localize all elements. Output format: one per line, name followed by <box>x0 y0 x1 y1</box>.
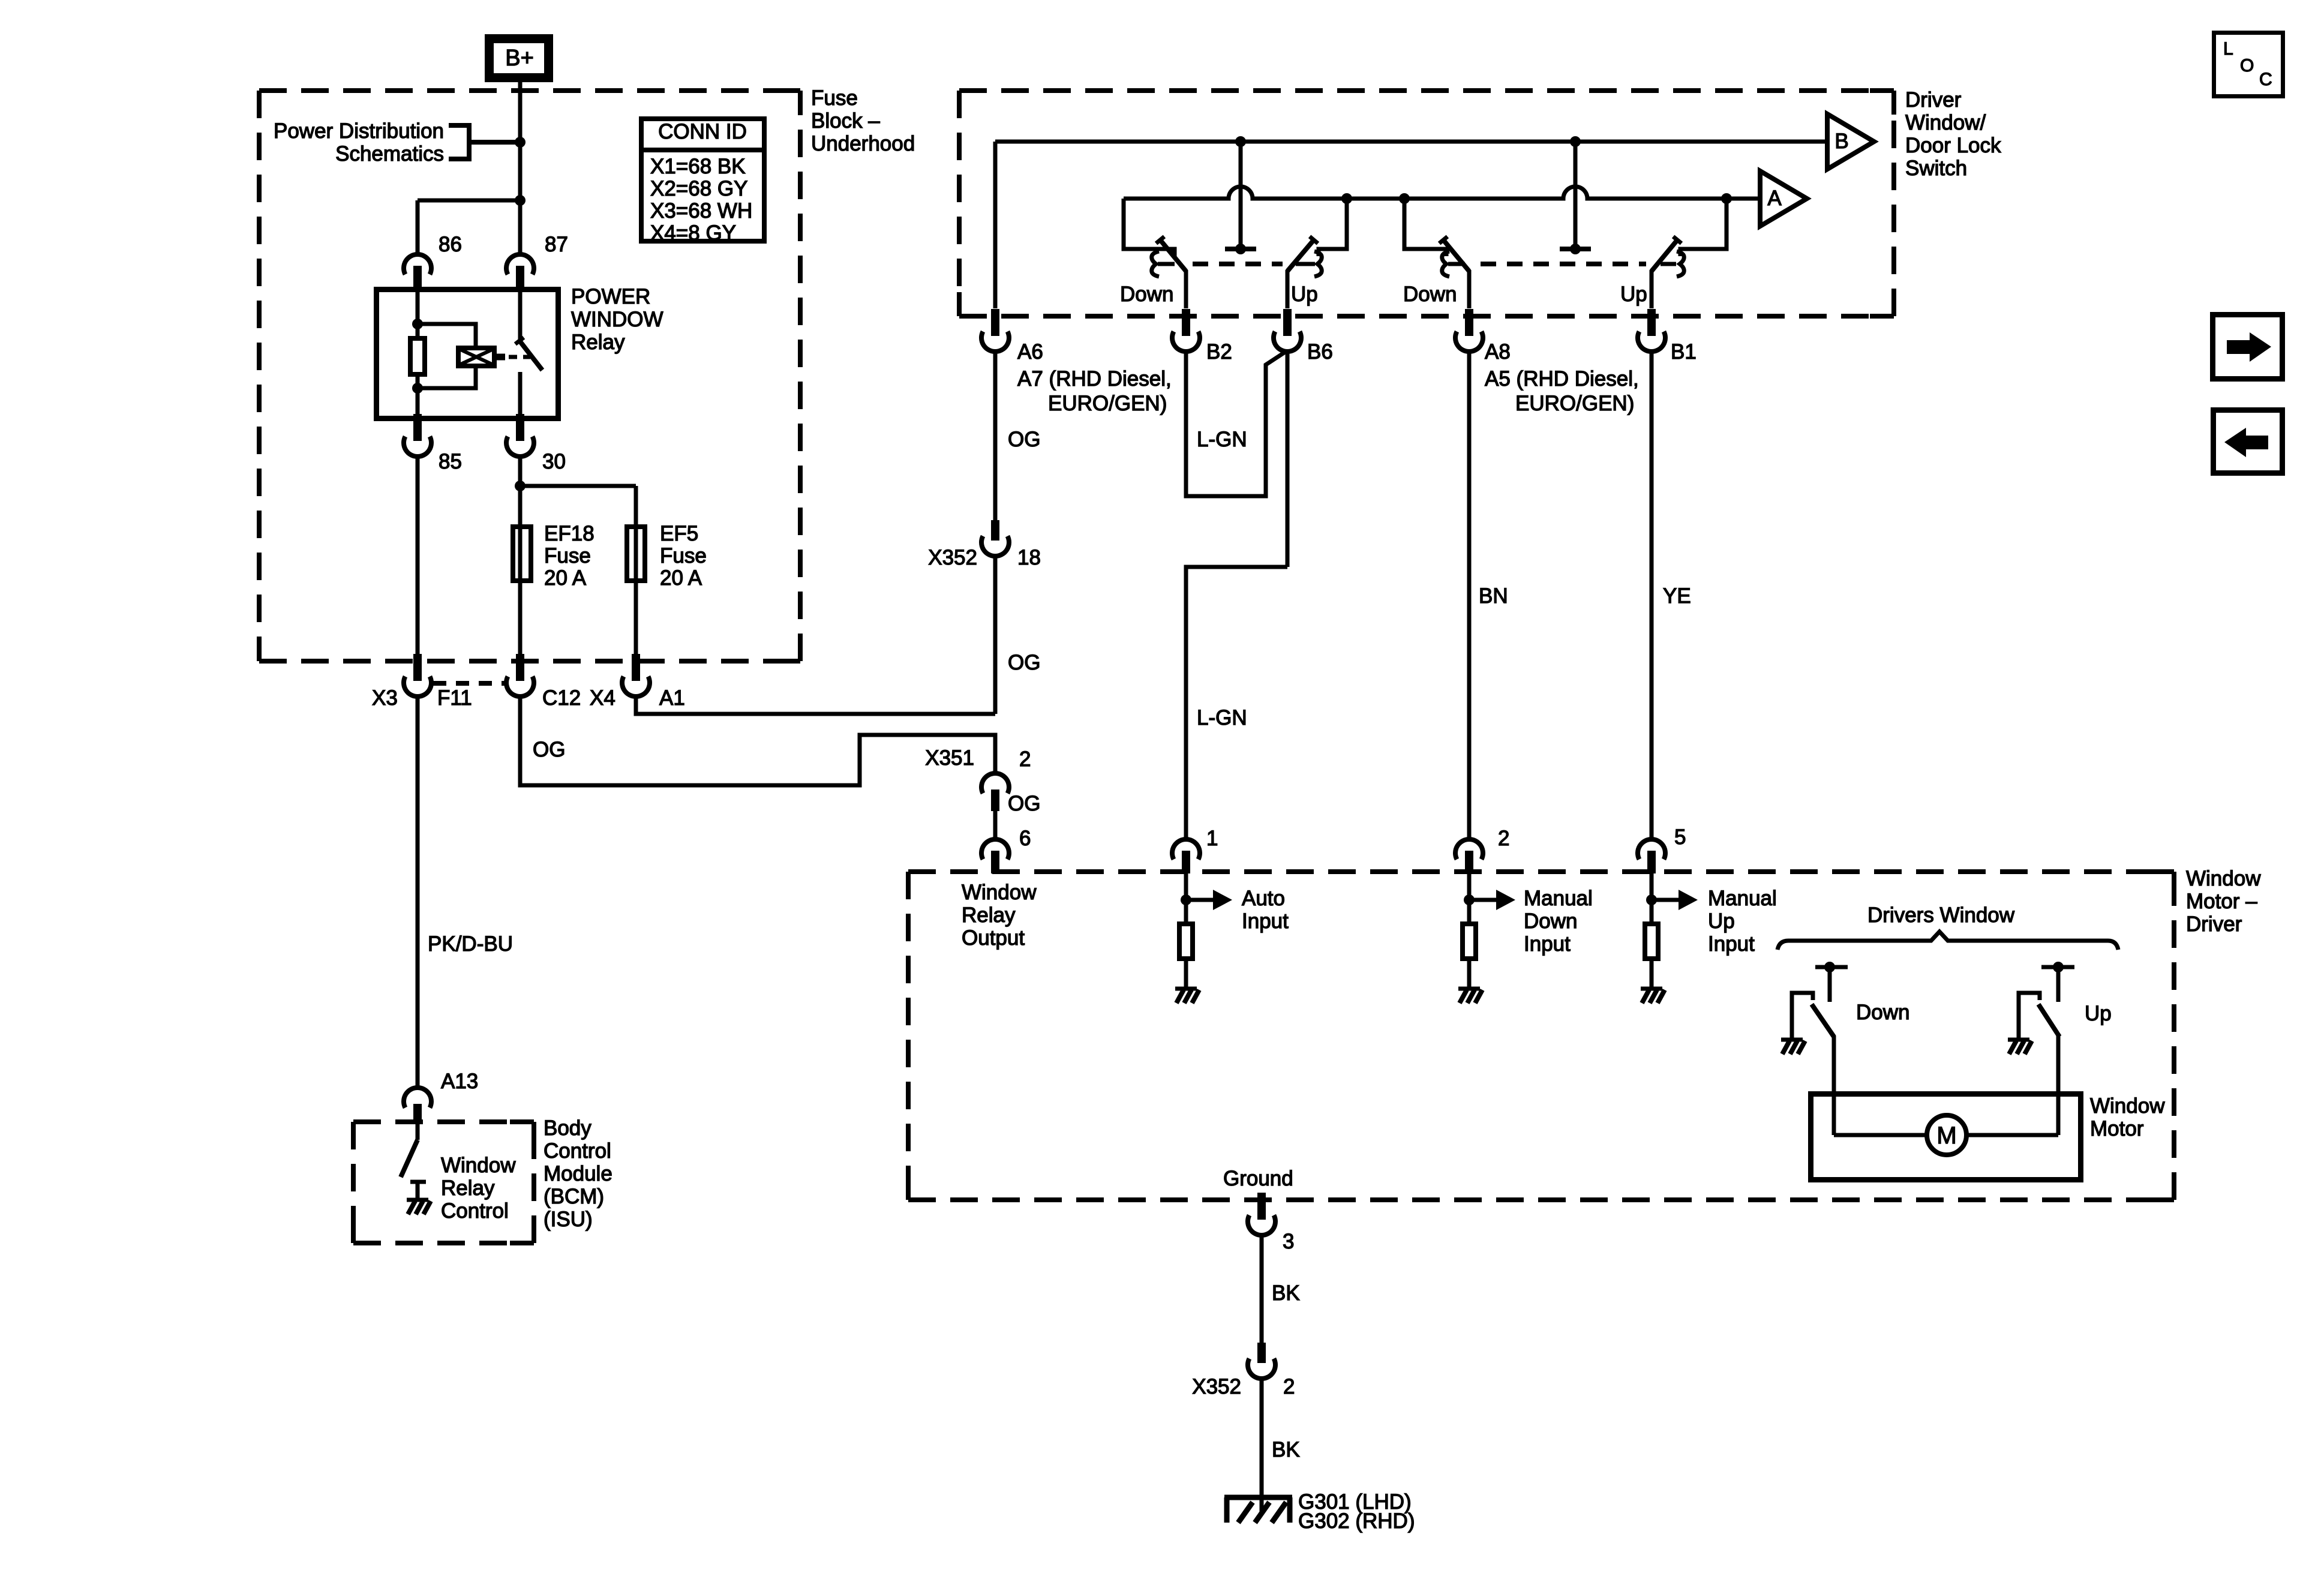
svg-text:(ISU): (ISU) <box>544 1208 593 1231</box>
svg-text:1: 1 <box>1206 827 1218 850</box>
svg-text:X3=68 WH: X3=68 WH <box>650 199 752 223</box>
svg-text:Ground: Ground <box>1223 1167 1293 1190</box>
svg-text:Output: Output <box>962 926 1025 950</box>
svg-text:Manual: Manual <box>1524 887 1593 910</box>
svg-text:Window: Window <box>2186 867 2261 890</box>
svg-text:Up: Up <box>1708 909 1735 933</box>
svg-text:Module: Module <box>544 1162 612 1185</box>
svg-text:2: 2 <box>1019 748 1031 771</box>
svg-text:Relay: Relay <box>441 1176 495 1200</box>
svg-text:X351: X351 <box>925 746 974 770</box>
svg-text:Drivers Window: Drivers Window <box>1867 903 2015 927</box>
svg-text:X352: X352 <box>928 546 977 569</box>
svg-text:86: 86 <box>439 233 462 256</box>
svg-text:Window/: Window/ <box>1905 111 1986 134</box>
svg-text:Fuse: Fuse <box>544 544 591 568</box>
svg-text:Driver: Driver <box>1905 88 1962 112</box>
svg-text:OG: OG <box>533 738 565 761</box>
svg-text:Input: Input <box>1708 932 1755 956</box>
svg-text:Window: Window <box>441 1154 516 1177</box>
svg-text:PK/D-BU: PK/D-BU <box>428 932 513 956</box>
svg-text:A7 (RHD Diesel,: A7 (RHD Diesel, <box>1017 367 1172 391</box>
svg-text:X352: X352 <box>1192 1375 1241 1398</box>
svg-text:Up: Up <box>1291 283 1318 306</box>
svg-text:3: 3 <box>1283 1230 1294 1253</box>
svg-text:A: A <box>1767 187 1782 210</box>
svg-text:Relay: Relay <box>962 903 1016 927</box>
svg-text:BK: BK <box>1272 1281 1300 1305</box>
svg-text:Auto: Auto <box>1242 887 1285 910</box>
svg-text:OG: OG <box>1008 651 1040 674</box>
svg-text:2: 2 <box>1498 827 1509 850</box>
svg-text:Body: Body <box>544 1116 591 1140</box>
svg-text:C: C <box>2259 70 2272 89</box>
svg-text:Driver: Driver <box>2186 912 2242 936</box>
svg-text:L-GN: L-GN <box>1197 706 1247 730</box>
svg-text:Manual: Manual <box>1708 887 1777 910</box>
svg-text:YE: YE <box>1663 584 1691 608</box>
svg-text:(BCM): (BCM) <box>544 1185 604 1208</box>
svg-text:Fuse: Fuse <box>660 544 707 568</box>
svg-text:Window: Window <box>962 881 1037 904</box>
svg-text:O: O <box>2240 56 2254 76</box>
svg-text:X1=68 BK: X1=68 BK <box>650 155 746 178</box>
svg-text:Schematics: Schematics <box>335 142 444 166</box>
svg-text:EURO/GEN): EURO/GEN) <box>1048 392 1167 415</box>
svg-text:Up: Up <box>2085 1002 2112 1025</box>
svg-text:20 A: 20 A <box>660 566 702 590</box>
svg-text:Switch: Switch <box>1905 157 1967 180</box>
svg-text:A8: A8 <box>1485 340 1511 364</box>
svg-text:B2: B2 <box>1206 340 1232 364</box>
svg-text:Down: Down <box>1403 283 1457 306</box>
svg-text:Down: Down <box>1524 909 1577 933</box>
svg-text:20 A: 20 A <box>544 566 587 590</box>
svg-text:87: 87 <box>545 233 568 256</box>
svg-text:X2=68 GY: X2=68 GY <box>650 177 747 200</box>
svg-text:30: 30 <box>542 450 566 473</box>
svg-text:Input: Input <box>1524 932 1571 956</box>
svg-text:Motor: Motor <box>2090 1117 2144 1140</box>
svg-text:85: 85 <box>439 450 462 473</box>
svg-text:BN: BN <box>1479 584 1508 608</box>
svg-text:X4: X4 <box>590 686 615 710</box>
svg-text:6: 6 <box>1019 827 1031 850</box>
svg-text:Door Lock: Door Lock <box>1905 134 2001 157</box>
svg-text:A1: A1 <box>659 686 685 710</box>
svg-text:OG: OG <box>1008 428 1040 451</box>
svg-text:B: B <box>1834 130 1848 153</box>
svg-text:Control: Control <box>544 1139 611 1163</box>
svg-text:5: 5 <box>1674 825 1686 849</box>
svg-text:B1: B1 <box>1671 340 1697 364</box>
svg-text:Block –: Block – <box>811 109 880 133</box>
svg-text:Down: Down <box>1856 1001 1909 1024</box>
svg-text:Relay: Relay <box>571 331 625 354</box>
svg-text:F11: F11 <box>437 686 472 710</box>
svg-text:B6: B6 <box>1307 340 1333 364</box>
svg-text:POWER: POWER <box>571 285 650 308</box>
svg-text:EF5: EF5 <box>660 522 698 545</box>
svg-text:X4=8 GY: X4=8 GY <box>650 221 736 245</box>
svg-text:A5 (RHD Diesel,: A5 (RHD Diesel, <box>1485 367 1639 391</box>
svg-text:Power Distribution: Power Distribution <box>274 119 444 143</box>
svg-text:EF18: EF18 <box>544 522 594 545</box>
svg-text:EURO/GEN): EURO/GEN) <box>1515 392 1634 415</box>
svg-text:OG: OG <box>1008 792 1040 815</box>
svg-text:Window: Window <box>2090 1094 2165 1118</box>
svg-text:X3: X3 <box>372 686 398 710</box>
svg-text:A13: A13 <box>441 1070 478 1093</box>
svg-text:WINDOW: WINDOW <box>571 308 663 331</box>
svg-text:B+: B+ <box>505 46 534 71</box>
svg-text:18: 18 <box>1017 546 1041 569</box>
svg-text:Control: Control <box>441 1199 509 1223</box>
svg-text:L-GN: L-GN <box>1197 428 1247 451</box>
svg-text:CONN ID: CONN ID <box>658 120 747 143</box>
svg-text:BK: BK <box>1272 1438 1300 1461</box>
svg-text:G302 (RHD): G302 (RHD) <box>1298 1509 1415 1533</box>
svg-text:Underhood: Underhood <box>811 132 915 155</box>
svg-text:A6: A6 <box>1017 340 1043 364</box>
svg-text:Input: Input <box>1242 909 1289 933</box>
svg-text:M: M <box>1936 1122 1956 1149</box>
svg-text:L: L <box>2223 39 2233 59</box>
svg-text:Down: Down <box>1120 283 1173 306</box>
svg-text:Motor –: Motor – <box>2186 890 2257 913</box>
svg-text:C12: C12 <box>542 686 581 710</box>
svg-text:Fuse: Fuse <box>811 86 858 110</box>
svg-text:Up: Up <box>1620 283 1647 306</box>
svg-text:2: 2 <box>1283 1375 1295 1398</box>
